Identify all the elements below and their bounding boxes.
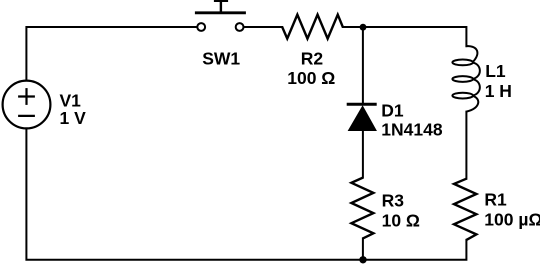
svg-text:1 V: 1 V [60, 108, 87, 128]
svg-text:R1: R1 [484, 189, 507, 209]
svg-text:100 Ω: 100 Ω [287, 68, 335, 88]
svg-text:100 µΩ: 100 µΩ [484, 210, 540, 230]
svg-text:10 Ω: 10 Ω [382, 211, 420, 231]
svg-text:1 H: 1 H [485, 81, 512, 101]
svg-text:D1: D1 [381, 101, 404, 121]
svg-text:R3: R3 [382, 191, 405, 211]
svg-text:R2: R2 [301, 49, 324, 69]
svg-text:SW1: SW1 [202, 49, 240, 69]
svg-text:L1: L1 [485, 61, 506, 81]
svg-text:1N4148: 1N4148 [381, 120, 443, 140]
